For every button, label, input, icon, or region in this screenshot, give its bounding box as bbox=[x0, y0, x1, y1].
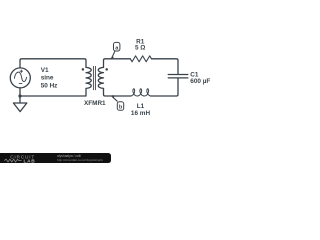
voltage source V1 bbox=[10, 68, 30, 88]
svg-text:L1: L1 bbox=[137, 103, 145, 110]
transformer XFMR1 bbox=[82, 66, 108, 89]
resistor R1 bbox=[130, 56, 151, 62]
svg-text:XFMR1: XFMR1 bbox=[84, 100, 106, 107]
wire V1 bottom to ground node bbox=[19, 88, 21, 96]
wire XFMR1 secondary top to node a junction and R1 bbox=[104, 59, 131, 68]
label R1 value bbox=[135, 38, 145, 51]
inductor L1 bbox=[130, 89, 151, 96]
svg-text:5 Ω: 5 Ω bbox=[135, 45, 145, 52]
label L1 value bbox=[131, 103, 151, 117]
label C1 value bbox=[190, 72, 210, 86]
svg-text:LAB: LAB bbox=[24, 158, 36, 164]
label V1 value bbox=[41, 67, 58, 89]
wire bottom rail primary (ground node to XFMR1 primary bottom) bbox=[20, 89, 86, 96]
node b flag bbox=[111, 95, 124, 111]
svg-text:50 Hz: 50 Hz bbox=[41, 83, 58, 90]
svg-text:b: b bbox=[119, 105, 123, 111]
node a flag bbox=[111, 42, 120, 59]
svg-text:http://circuitlab.com/c/brgsfe: http://circuitlab.com/c/brgsfefsqrls bbox=[57, 158, 103, 162]
watermark user text bbox=[57, 154, 103, 162]
ground bbox=[13, 96, 26, 112]
watermark logo CIRCUITLAB bbox=[4, 154, 35, 164]
svg-text:16 mH: 16 mH bbox=[131, 110, 151, 117]
wire XFMR1 secondary bottom to node b junction and L1 bbox=[104, 89, 132, 96]
capacitor C1 bbox=[168, 75, 188, 78]
svg-text:sine: sine bbox=[41, 75, 54, 82]
wire R1 to top right corner and C1 top bbox=[152, 59, 179, 75]
wire top rail primary (V1 top to XFMR1 primary top) bbox=[20, 59, 86, 68]
label XFMR1 bbox=[84, 100, 106, 107]
wire C1 bottom to bottom right corner and L1 bbox=[151, 78, 179, 96]
svg-text:V1: V1 bbox=[41, 67, 49, 74]
watermark bar bbox=[0, 153, 111, 163]
junction dot at ground node bbox=[18, 94, 21, 97]
svg-text:600 µF: 600 µF bbox=[190, 78, 210, 85]
